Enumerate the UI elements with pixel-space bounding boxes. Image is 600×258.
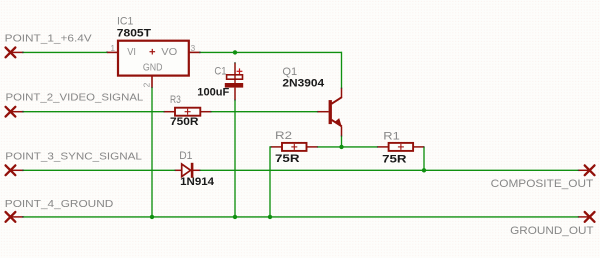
wire VIDEO: R3 to Q1 base bbox=[211, 111, 318, 113]
pin connection end dots bbox=[106, 51, 579, 218]
R2 body bbox=[282, 143, 307, 151]
svg-text:GND: GND bbox=[143, 63, 163, 74]
svg-text:VO: VO bbox=[161, 47, 177, 58]
wire C1 bottom to ground rail bbox=[234, 100, 236, 217]
pin stub POINT_4 bbox=[11, 216, 24, 218]
svg-text:R2: R2 bbox=[275, 130, 292, 142]
svg-text:IC1: IC1 bbox=[117, 15, 133, 27]
pin stub POINT_2 bbox=[11, 111, 24, 113]
svg-text:R1: R1 bbox=[383, 131, 400, 143]
svg-text:D1: D1 bbox=[179, 150, 192, 162]
R1 body bbox=[389, 143, 414, 151]
wire SYNC: X to D1 anode bbox=[23, 169, 176, 171]
IC1 body box bbox=[118, 41, 189, 76]
wire emitter net: junction left to R2 bbox=[318, 146, 342, 148]
svg-text:POINT_3_SYNC_SIGNAL: POINT_3_SYNC_SIGNAL bbox=[5, 151, 142, 163]
Q1 base pin stub bbox=[318, 111, 329, 113]
R1 right pin stub bbox=[413, 146, 424, 148]
C1 top pin stub bbox=[234, 63, 236, 75]
junction dot GND/R2 bbox=[268, 215, 272, 219]
wire VO net: IC1 pin3 to corner above Q1 collector bbox=[200, 51, 342, 53]
pin stub GROUND_OUT bbox=[579, 216, 590, 218]
R2 right pin stub bbox=[307, 146, 318, 148]
wire VO net: vertical down to Q1 collector bbox=[341, 52, 343, 88]
wire R1 right corner down to composite line bbox=[423, 147, 425, 170]
resistor R3 bbox=[164, 94, 211, 128]
junction dot R1/composite bbox=[422, 168, 426, 172]
IC1 pin 3 stub (VO) bbox=[190, 51, 201, 53]
C1 negative plate (filled) bbox=[225, 83, 243, 88]
D1 cathode bar bbox=[191, 163, 194, 178]
IC1 pin 1 stub (VI) bbox=[107, 51, 117, 53]
D1 anode pin stub bbox=[175, 169, 182, 171]
svg-text:C1: C1 bbox=[214, 65, 226, 77]
R3 origin cross bbox=[185, 109, 191, 115]
svg-text:2N3904: 2N3904 bbox=[282, 77, 324, 89]
pin stub POINT_1 bbox=[11, 51, 24, 53]
transistor Q1 2N3904 bbox=[282, 66, 342, 136]
pin stub COMPOSITE_OUT bbox=[579, 169, 590, 171]
C1 plus sign bbox=[237, 68, 243, 74]
wire emitter to junction bbox=[341, 136, 343, 147]
svg-text:R3: R3 bbox=[170, 94, 181, 106]
svg-text:COMPOSITE_OUT: COMPOSITE_OUT bbox=[491, 178, 594, 190]
junction dot GND/IC1 bbox=[150, 215, 154, 219]
IC1 7805T regulator bbox=[107, 15, 200, 87]
junction dot GND/C1 bbox=[233, 215, 237, 219]
terminal X POINT_2 bbox=[6, 107, 16, 117]
svg-text:Q1: Q1 bbox=[282, 66, 297, 78]
svg-text:1N914: 1N914 bbox=[180, 176, 215, 188]
capacitor C1 bbox=[197, 63, 243, 100]
Q1 emitter pin stub bbox=[341, 126, 343, 136]
terminal X GROUND_OUT bbox=[585, 212, 595, 222]
junction dot emitter/R2/R1 bbox=[339, 145, 343, 149]
svg-text:100uF: 100uF bbox=[197, 87, 229, 99]
svg-text:750R: 750R bbox=[170, 116, 199, 128]
diode D1 1N914 bbox=[175, 150, 215, 188]
C1 positive plate (hollow) bbox=[227, 75, 243, 79]
svg-text:POINT_1_+6.4V: POINT_1_+6.4V bbox=[5, 33, 92, 45]
wire COMPOSITE: D1 cathode to output X bbox=[200, 169, 579, 171]
R2 left pin stub bbox=[271, 146, 282, 148]
R2 origin cross bbox=[291, 144, 297, 150]
R3 left pin stub bbox=[164, 111, 175, 113]
pin end dot bbox=[22, 216, 24, 218]
C1 bottom pin stub bbox=[234, 88, 236, 100]
svg-text:7805T: 7805T bbox=[117, 27, 151, 39]
R3 body bbox=[175, 108, 200, 116]
IC1 pin 2 stub (GND) bbox=[151, 77, 153, 88]
svg-text:VI: VI bbox=[127, 47, 136, 58]
svg-text:POINT_4_GROUND: POINT_4_GROUND bbox=[5, 198, 114, 210]
R1 origin cross bbox=[398, 144, 404, 150]
wire +6.4V: X to IC1 VI bbox=[23, 51, 108, 53]
terminal X COMPOSITE_OUT bbox=[585, 165, 595, 175]
svg-text:75R: 75R bbox=[275, 153, 300, 165]
svg-text:75R: 75R bbox=[382, 153, 406, 165]
pin end dot bbox=[22, 52, 24, 54]
D1 triangle bbox=[182, 164, 191, 177]
resistor R1 bbox=[378, 131, 425, 166]
svg-text:1: 1 bbox=[110, 43, 115, 53]
wire R2 left corner down to ground rail bbox=[270, 147, 271, 217]
Q1 base bar bbox=[329, 100, 332, 124]
wire VIDEO: X to R3 bbox=[23, 111, 165, 113]
pin end dot bbox=[22, 169, 24, 171]
pin stub POINT_3 bbox=[11, 169, 24, 171]
R3 right pin stub bbox=[200, 111, 211, 113]
pin end dot VO bbox=[199, 52, 201, 54]
svg-text:2: 2 bbox=[141, 82, 151, 87]
wire GROUND rail bbox=[23, 216, 579, 218]
junction dot at C1 top bbox=[233, 50, 237, 54]
D1 cathode pin stub bbox=[193, 169, 200, 171]
svg-text:GROUND_OUT: GROUND_OUT bbox=[510, 225, 594, 237]
Q1 collector diagonal bbox=[332, 97, 342, 104]
pin end dot bbox=[22, 111, 24, 113]
svg-text:POINT_2_VIDEO_SIGNAL: POINT_2_VIDEO_SIGNAL bbox=[6, 92, 144, 104]
IC1 origin cross bbox=[150, 49, 156, 55]
resistor R2 bbox=[271, 130, 318, 165]
R1 left pin stub bbox=[378, 146, 389, 148]
terminal X POINT_3 bbox=[6, 165, 16, 175]
Q1 collector pin stub bbox=[341, 88, 343, 98]
wire emitter net: junction right to R1 bbox=[342, 146, 378, 148]
Q1 emitter diagonal bbox=[332, 120, 342, 127]
C1 pin line through plate bbox=[234, 74, 236, 83]
svg-text:3: 3 bbox=[191, 43, 196, 53]
terminal X POINT_4 bbox=[6, 212, 16, 222]
terminal X POINT_1 bbox=[6, 48, 16, 58]
wire GND: IC1 pin2 down to ground rail bbox=[151, 88, 153, 217]
Q1 emitter arrowhead bbox=[334, 118, 342, 127]
